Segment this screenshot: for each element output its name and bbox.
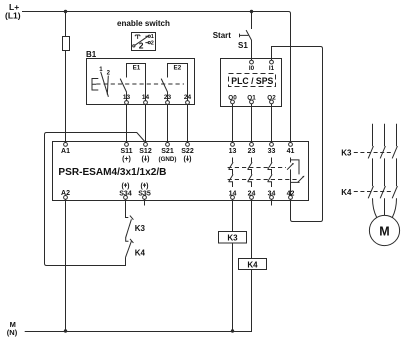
relay contact column 23-24 [248, 158, 253, 188]
svg-text:S22: S22 [181, 148, 194, 155]
wire fuse to A1 [65, 51, 67, 143]
svg-text:K4: K4 [247, 260, 258, 269]
mechanical coupling dashed line [96, 83, 184, 85]
svg-text:enable switch: enable switch [117, 19, 170, 28]
B1 terminal 23 [164, 94, 172, 104]
terminal 41 relay [287, 143, 295, 156]
svg-text:2: 2 [139, 41, 144, 51]
svg-text:(L1): (L1) [5, 11, 21, 21]
three phase line L2 with contacts [380, 124, 385, 216]
PLC input I0 [249, 60, 255, 72]
terminal S35 [138, 183, 151, 200]
svg-text:2: 2 [151, 40, 154, 46]
svg-text:(: ( [142, 156, 145, 163]
label L+ (L1) [5, 2, 21, 21]
wire A2 to M rail [65, 199, 67, 331]
dashed link K4 contacts [354, 191, 393, 193]
feedback contact K3 [126, 216, 134, 238]
PLC / SPS label [229, 74, 276, 88]
contact E2 [161, 64, 187, 101]
svg-text:S21: S21 [161, 148, 174, 155]
svg-text:PSR-ESAM4/3x1/1x2/B: PSR-ESAM4/3x1/1x2/B [58, 167, 166, 178]
svg-text:(N): (N) [7, 328, 18, 337]
contact E1 [120, 64, 145, 101]
wire 42 feedback to I1 [272, 47, 323, 222]
B1 terminal 14 [142, 94, 150, 104]
svg-text:23: 23 [248, 148, 256, 155]
svg-text:PLC / SPS: PLC / SPS [231, 76, 273, 87]
wire Q1 to 23 [251, 104, 253, 143]
svg-text:I1: I1 [269, 65, 275, 72]
svg-text:E2: E2 [174, 64, 182, 71]
terminal 24 relay [248, 190, 256, 199]
junction node K3 on M rail [231, 329, 234, 332]
svg-text:): ) [189, 156, 191, 163]
contactor coil K4 [239, 259, 267, 270]
svg-text:K4: K4 [341, 188, 352, 197]
start switch S1 [240, 12, 252, 61]
wire 14 to S12 [145, 104, 147, 142]
stub terminal S35 [144, 199, 146, 205]
M (N) rail [25, 331, 252, 333]
feedback contact K4 [126, 237, 134, 257]
svg-text:S11: S11 [120, 148, 132, 155]
terminal S11 (+) [120, 143, 132, 164]
svg-text:33: 33 [268, 148, 276, 155]
wire rail to terminal 41 [290, 14, 292, 143]
terminal A2 [61, 190, 70, 199]
junction node fuse branch [64, 10, 67, 13]
junction node S1 branch [250, 10, 253, 13]
terminal 34 relay [268, 190, 276, 199]
three phase line L3 with contacts [392, 124, 397, 218]
svg-text:41: 41 [287, 148, 295, 155]
label M (N) [7, 320, 18, 337]
L+ supply rail [22, 12, 291, 14]
motor M [369, 215, 399, 245]
svg-text:(: ( [122, 183, 125, 190]
fuse F1 [63, 37, 70, 51]
PLC output Q2 [267, 94, 276, 103]
actuator symbol [92, 67, 111, 97]
wire K3 coil to M rail [232, 243, 234, 332]
svg-text:): ) [146, 183, 148, 190]
relay contact column 13-14 [229, 158, 234, 188]
svg-text:(GND): (GND) [159, 156, 177, 163]
svg-text:Start: Start [213, 31, 232, 40]
svg-text:A1: A1 [61, 148, 70, 155]
PLC box [221, 59, 282, 107]
wire Q0 to 13 [232, 104, 234, 143]
terminal S12 [139, 143, 152, 164]
three phase line L1 with contacts [368, 124, 377, 218]
relay contact path 41-42 [287, 158, 304, 196]
B1 terminal 24 [184, 94, 192, 104]
relay contact column 33-34 [268, 158, 273, 188]
wire 24 to K4 coil [251, 199, 253, 258]
svg-text:K3: K3 [135, 224, 146, 233]
svg-text:13: 13 [229, 148, 237, 155]
feedback loop wire S12 to K3/K4 contacts [45, 133, 146, 266]
svg-text:(+): (+) [122, 156, 131, 163]
svg-text:S1: S1 [238, 41, 248, 50]
contactor coil K3 [219, 232, 247, 244]
wire 24 to S22 [187, 104, 189, 142]
wire rail to fuse [65, 12, 67, 37]
PLC output Q1 [247, 94, 256, 103]
terminal S21 (GND) [159, 143, 177, 164]
PLC output Q0 [228, 94, 237, 103]
dashed link K3 contacts [354, 152, 393, 154]
svg-text:S12: S12 [139, 148, 152, 155]
terminal 13 relay [229, 143, 237, 156]
wire 23 to S21 [167, 104, 169, 142]
PLC input I1 [269, 60, 275, 72]
terminal 42 relay [287, 190, 295, 199]
stub terminal 34 [271, 199, 273, 205]
svg-text:K3: K3 [227, 234, 238, 243]
terminal 14 relay [229, 190, 237, 199]
wire Q2 to 33 [271, 104, 273, 143]
svg-text:B1: B1 [86, 50, 97, 59]
wire S34 down [126, 199, 129, 217]
mechanical link dashed row 1 [228, 167, 286, 169]
mechanical link dashed row 2 [228, 179, 298, 181]
svg-text:(: ( [184, 156, 187, 163]
svg-text:): ) [147, 156, 149, 163]
terminal S22 [181, 143, 194, 164]
svg-text:K4: K4 [135, 248, 146, 257]
svg-text:E1: E1 [133, 64, 141, 71]
wire 14 to K3 coil [232, 199, 234, 231]
svg-text:): ) [127, 183, 129, 190]
B1 terminal 13 [123, 94, 131, 104]
svg-text:I0: I0 [249, 65, 255, 72]
enable switch icon [132, 33, 156, 51]
terminal 33 relay [268, 143, 276, 156]
wire 13 to S11 [126, 104, 128, 142]
terminal 23 relay [248, 143, 256, 156]
safety relay box [53, 142, 309, 201]
svg-text:K3: K3 [341, 149, 352, 158]
terminal A1 [61, 143, 70, 156]
junction node A2 on M rail [64, 329, 67, 332]
svg-text:M: M [379, 225, 389, 239]
wire K4 coil to M rail [251, 270, 253, 332]
terminal S34 [119, 183, 132, 200]
enable switch B1 box [87, 59, 195, 105]
svg-text:1: 1 [151, 34, 154, 40]
svg-text:(: ( [141, 183, 144, 190]
